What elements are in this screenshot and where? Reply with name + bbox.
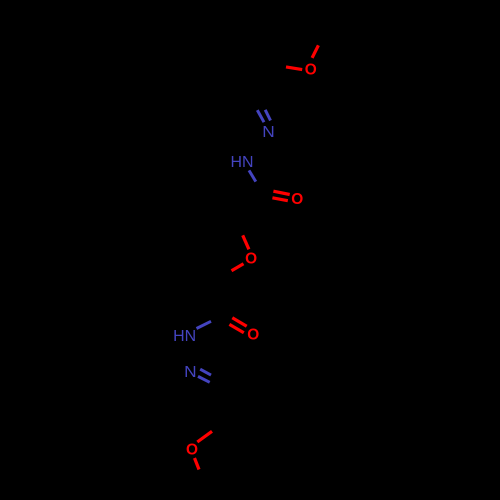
bond O1-C5 top furan (oxygen half, red)	[312, 45, 318, 58]
svg-text:HN: HN	[231, 154, 254, 171]
bond C6=N1 imine double bond line a (nitrogen half, blue)	[257, 110, 264, 122]
bond C6=N1 imine double bond line b (nitrogen half, blue)	[265, 110, 270, 121]
bond O3-C5 central furan (oxygen half, red)	[232, 264, 244, 271]
bond N4=C9 imine double bond line a (nitrogen half, blue)	[200, 369, 211, 375]
bond C7=O2 carbonyl double bond upper line (oxygen half, red)	[273, 191, 289, 194]
bond C7=O2 carbonyl double bond lower line (oxygen half, red)	[272, 198, 287, 201]
svg-text:O: O	[305, 61, 317, 78]
bond C8=O4 carbonyl double bond lower line (oxygen half, red)	[229, 324, 243, 332]
svg-text:O: O	[186, 441, 198, 458]
bond O5-C5 bottom furan (oxygen half, red)	[195, 458, 200, 470]
bond N3H-C8 (nitrogen half, blue)	[197, 321, 212, 328]
svg-text:HN: HN	[173, 328, 196, 345]
bond O5-C2 bottom furan (oxygen half, red)	[197, 431, 212, 442]
svg-text:N: N	[262, 124, 275, 141]
bond C8=O4 carbonyl double bond upper line (oxygen half, red)	[232, 318, 246, 327]
bond N4=C9 imine double bond line b (nitrogen half, blue)	[198, 376, 210, 382]
svg-text:N: N	[184, 364, 197, 381]
svg-text:O: O	[247, 327, 259, 344]
bond O3-C2 central furan (oxygen half, red)	[243, 235, 249, 249]
central furan ring carbon skeleton (invisible black bonds)	[173, 213, 234, 283]
top furan ring carbon skeleton (invisible black bonds C2-C3, C3-C4, C4-C5)	[234, 0, 326, 65]
svg-text:O: O	[245, 251, 257, 268]
bottom furan ring carbon skeleton (invisible black bonds)	[206, 414, 262, 490]
svg-text:O: O	[291, 191, 303, 208]
bond O1-C2 top furan (oxygen half, red)	[286, 67, 302, 70]
bond N2H-C7 (nitrogen half, blue)	[249, 170, 256, 181]
